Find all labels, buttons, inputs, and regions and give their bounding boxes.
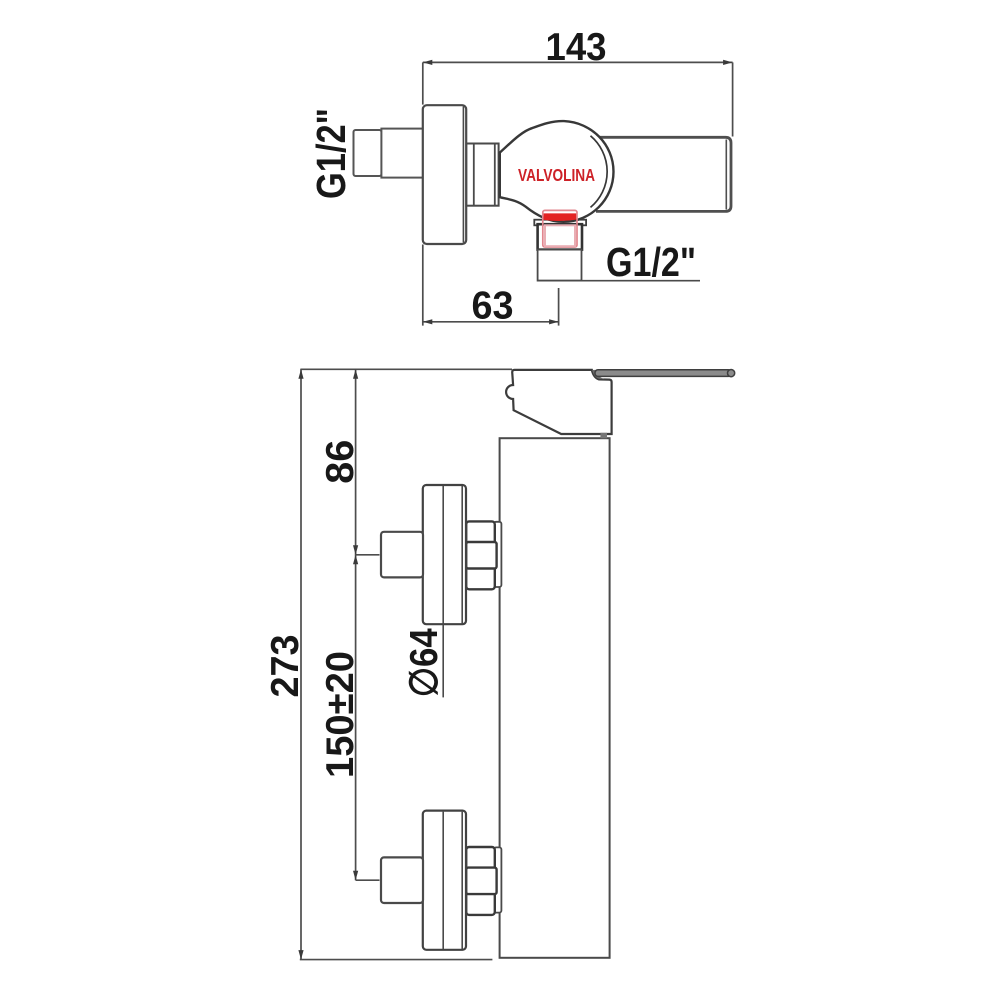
svg-text:86: 86 [319, 440, 362, 484]
arrowheads vertical dims [298, 369, 358, 959]
lower flange disc [423, 811, 466, 950]
lower extension line (150 end) [356, 879, 380, 881]
upper hex nut [466, 521, 495, 589]
lower hex nut [466, 847, 495, 915]
svg-text:63: 63 [472, 285, 514, 328]
dimension 273 line [300, 369, 302, 959]
outlet pipe [538, 250, 582, 281]
outlet leader line [538, 280, 700, 282]
bottom extension line [300, 959, 493, 961]
cap seam piece [600, 433, 607, 439]
handle cap [506, 370, 611, 434]
upper washer ring [494, 522, 501, 587]
red port highlight: inner box [545, 225, 575, 246]
svg-text:150±20: 150±20 [319, 651, 362, 778]
outlet hex nut body [538, 224, 582, 249]
dimension 86/150 line [355, 369, 357, 880]
svg-text:273: 273 [264, 635, 307, 698]
svg-text:G1/2": G1/2" [308, 108, 354, 199]
dimension 143 arrowheads [423, 60, 733, 65]
wall flange plate [423, 105, 466, 244]
lower inlet pipe stub [381, 857, 423, 903]
lower washer ring [494, 847, 501, 912]
main vertical body [500, 438, 610, 958]
inlet pipe segment 1 [354, 130, 382, 176]
valve ball body [500, 121, 614, 222]
svg-text:143: 143 [546, 26, 607, 69]
mid extension line (86/150 boundary) [356, 554, 380, 556]
red port highlight: outer box [543, 210, 577, 247]
svg-text:∅64: ∅64 [403, 628, 446, 697]
body cylinder (right) [596, 137, 731, 211]
⌀64 leader line [442, 624, 444, 697]
upper inlet pipe stub [381, 532, 423, 578]
step connector to ball [466, 144, 498, 206]
top extension line [300, 368, 512, 370]
svg-text:VALVOLINA: VALVOLINA [518, 165, 595, 185]
svg-text:G1/2": G1/2" [606, 239, 696, 285]
outlet nut flange (below ball) [534, 220, 586, 226]
red port highlight: filled bar [544, 213, 577, 221]
dimension 143 line [423, 62, 733, 136]
lever handle bar [592, 370, 604, 379]
ball inner arc [591, 136, 608, 208]
dimension 63 [423, 245, 559, 326]
upper flange disc [423, 485, 466, 624]
inlet pipe segment 2 (hex) [381, 129, 424, 178]
